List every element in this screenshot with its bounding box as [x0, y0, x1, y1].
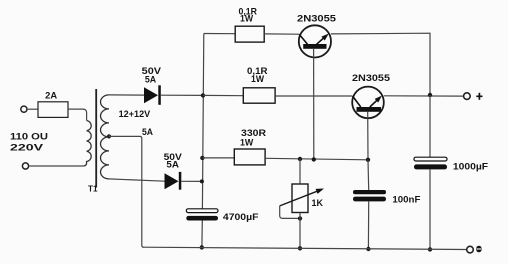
wire 1000uF column bottom: [429, 169, 431, 249]
node center tap: [107, 134, 111, 138]
wire fuse to primary: [68, 109, 87, 120]
wire Q1 base down: [313, 49, 315, 160]
wire bottom terminal to primary: [29, 165, 84, 167]
svg-text:1W: 1W: [240, 13, 254, 23]
svg-text:5A: 5A: [145, 75, 157, 85]
output terminal minus: [467, 246, 474, 253]
svg-text:1W: 1W: [251, 74, 265, 84]
wire pot to bottom rail: [299, 213, 301, 249]
svg-text:1K: 1K: [312, 198, 324, 208]
node + junction: [428, 93, 432, 97]
svg-text:2A: 2A: [45, 90, 58, 100]
node rowC/pot: [298, 157, 302, 161]
wire Q2 base down: [367, 112, 369, 160]
wire rowC to pot: [299, 159, 301, 184]
capacitor C3 1000uF: [414, 157, 447, 161]
wire rail to R3: [202, 157, 234, 159]
wire 100nF column top: [367, 160, 370, 190]
transistor Q1 2N3055: [299, 25, 331, 57]
fuse F1: [38, 102, 68, 118]
capacitor C2 100nF: [353, 190, 386, 194]
wire R2 to Q2: [275, 95, 352, 97]
svg-text:1W: 1W: [240, 137, 254, 147]
wire D1 to rail: [161, 94, 203, 96]
potentiometer P1 1K: [292, 184, 308, 213]
wire R3 to Q2 base: [265, 158, 368, 160]
svg-text:4700µF: 4700µF: [223, 212, 259, 222]
node rowC/Q2 base: [366, 158, 370, 162]
svg-text:2N3055: 2N3055: [297, 13, 336, 23]
wire secondary top to D1: [109, 94, 144, 96]
wire 1000uF column top: [429, 95, 431, 157]
svg-text:T1: T1: [88, 185, 98, 194]
input terminal bottom: [22, 163, 28, 169]
capacitor C1 4700uF: [186, 209, 218, 213]
wire D2 to rail: [181, 180, 202, 182]
wire 100nF column bottom: [367, 201, 369, 249]
node bottom/1000uF: [428, 247, 432, 251]
svg-text:2N3055: 2N3055: [352, 73, 390, 83]
node bottom/100nF: [366, 247, 370, 251]
node rail/bottom: [200, 245, 204, 249]
wire secondary bottom to D2: [109, 179, 165, 181]
diode D1: [144, 87, 158, 103]
node rowC/Q1 base: [312, 157, 316, 161]
output terminal +: [464, 93, 471, 100]
wire R1 to Q1: [264, 33, 299, 35]
resistor R3 330R: [234, 149, 265, 165]
wire Q1 emitter to right column: [331, 33, 430, 95]
wire terminal to fuse: [27, 108, 38, 110]
wire center tap down to bottom rail: [109, 136, 144, 247]
pot wiper loop: [280, 206, 300, 219]
transistor Q2 2N3055: [352, 87, 384, 119]
input terminal top: [21, 106, 27, 112]
label minus theta: [476, 246, 482, 253]
node pot loop: [298, 216, 302, 220]
left rail vertical: [202, 34, 203, 209]
svg-text:5A: 5A: [142, 127, 154, 137]
wire row A top: [204, 33, 235, 35]
wire Q2 emitter to + terminal: [384, 95, 464, 97]
svg-text:110 OU: 110 OU: [10, 132, 48, 142]
resistor R2 0,1R: [243, 88, 275, 103]
transformer T1 core: [95, 89, 97, 188]
resistor R1 0,1R: [235, 26, 264, 42]
label +: [476, 95, 482, 97]
svg-text:100nF: 100nF: [392, 195, 421, 205]
node bottom/pot: [298, 246, 302, 250]
bottom rail: [143, 247, 467, 249]
svg-text:12+12V: 12+12V: [119, 109, 151, 119]
node rail/rowC: [200, 156, 204, 160]
svg-text:5A: 5A: [166, 160, 179, 170]
transformer T1 primary winding: [83, 121, 91, 167]
svg-text:1000µF: 1000µF: [453, 161, 489, 171]
node rail/D2: [200, 179, 204, 183]
transformer T1 secondary winding: [101, 95, 110, 179]
wire rail to R2: [203, 94, 243, 96]
diode D2: [165, 173, 179, 189]
svg-text:220V: 220V: [10, 143, 43, 153]
node rail/D1: [201, 93, 205, 97]
